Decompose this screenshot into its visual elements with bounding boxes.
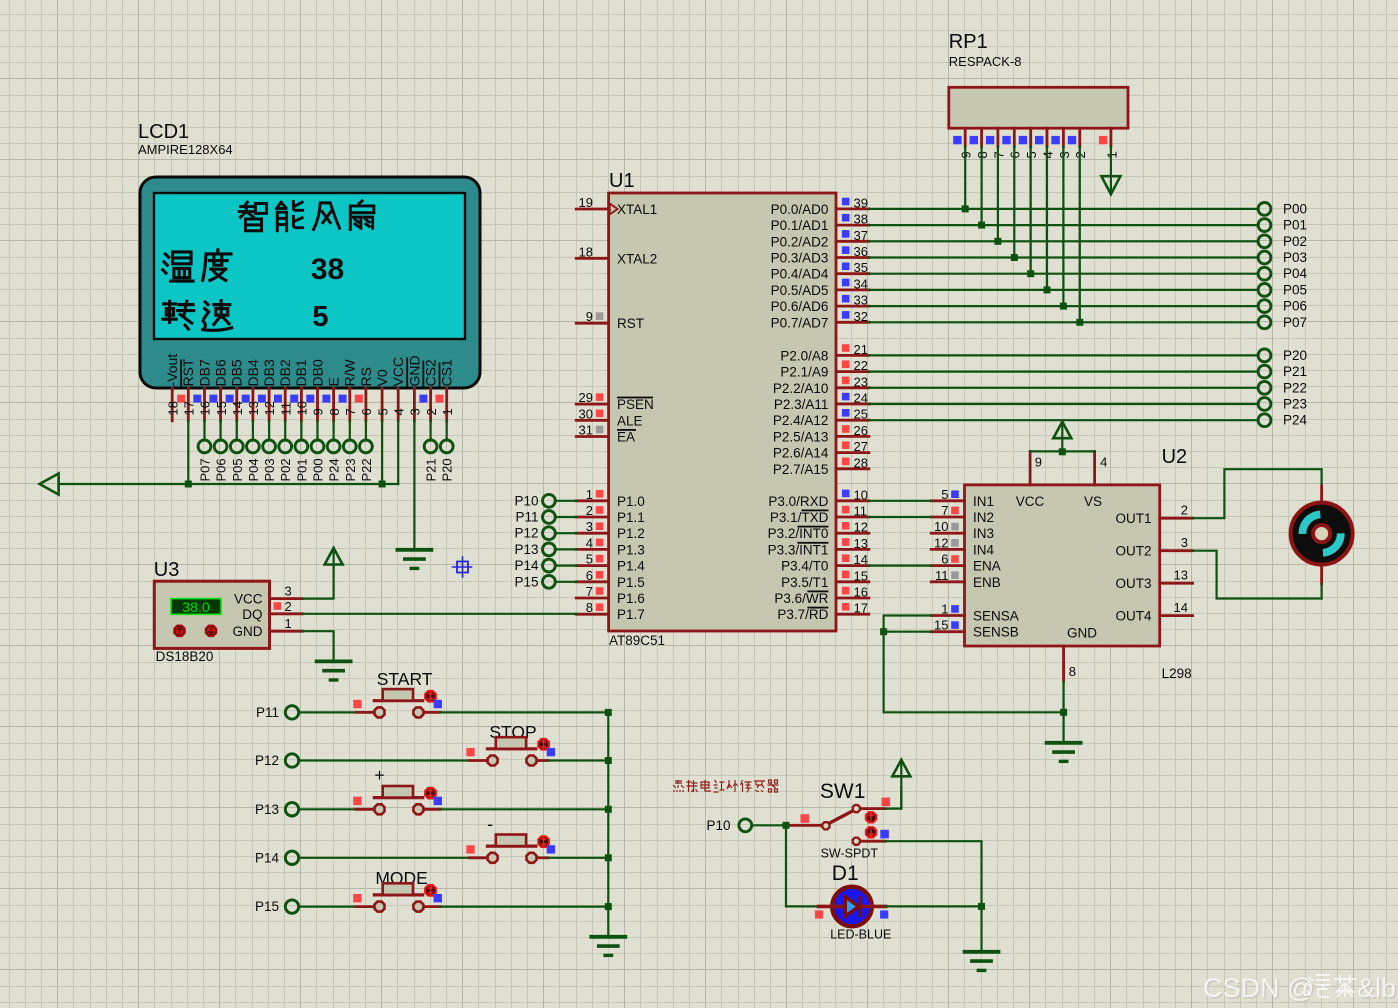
- mcu U1 AT89C51 body: [609, 193, 836, 631]
- LCD1 pin 9 (DB0): [306, 359, 325, 421]
- U1 pin 21 (P2.0/A8): [780, 342, 869, 364]
- svg-text:P24: P24: [327, 458, 342, 481]
- svg-text:P1.1: P1.1: [617, 510, 645, 525]
- RP1 pin 2: [1068, 128, 1088, 158]
- svg-text:P2.2/A10: P2.2/A10: [773, 381, 829, 396]
- wire U2 GND down: [1062, 681, 1064, 743]
- U2 pin 6 (ENA): [931, 552, 1001, 574]
- LCD1 pin 12 (DB3): [258, 359, 277, 421]
- LCD1 pin 15 (DB6): [209, 359, 228, 421]
- U1 pin 8 (P1.7): [576, 600, 645, 622]
- svg-text:P2.1/A9: P2.1/A9: [780, 365, 828, 380]
- motor pin 1 stub: [1320, 486, 1323, 502]
- svg-text:P22: P22: [359, 458, 374, 481]
- terminal P04: [1258, 266, 1307, 281]
- U1 pin 34 (P0.5/AD5): [771, 276, 869, 298]
- push button - label: [487, 814, 493, 834]
- wire P0.0 to terminal P00: [869, 208, 1258, 210]
- svg-text:27: 27: [854, 439, 868, 454]
- svg-text:35: 35: [854, 260, 868, 275]
- wire U3 DQ to U1 P1.7: [302, 613, 576, 615]
- svg-text:7: 7: [941, 503, 948, 518]
- wire STOP right: [537, 759, 608, 762]
- svg-text:P14: P14: [514, 558, 539, 573]
- U1 pin 14 (P3.4/T0): [781, 552, 869, 574]
- svg-text:P0.5/AD5: P0.5/AD5: [771, 283, 829, 298]
- svg-text:P1.6: P1.6: [617, 591, 645, 606]
- svg-text:P11: P11: [515, 510, 538, 525]
- svg-text:18: 18: [165, 401, 180, 415]
- U2 pin 15 (SENSB): [931, 618, 1019, 640]
- svg-text:P20: P20: [440, 458, 455, 481]
- wire P10 to SW1: [752, 824, 786, 826]
- svg-text:26: 26: [854, 423, 868, 438]
- terminal P14: [255, 850, 299, 865]
- wire - right: [537, 856, 608, 859]
- svg-text:P12: P12: [255, 753, 279, 768]
- svg-text:P3.1/TXD: P3.1/TXD: [770, 510, 829, 525]
- terminal P11 at U1: [515, 510, 555, 525]
- svg-text:15: 15: [214, 401, 229, 415]
- svg-text:-Vout: -Vout: [164, 354, 180, 387]
- U1 pin 18 (XTAL2): [576, 244, 657, 266]
- svg-text:P07: P07: [1283, 315, 1307, 330]
- wire SENS to ground rail: [884, 632, 1064, 713]
- svg-text:START: START: [377, 669, 433, 689]
- U1 XTAL1 clock arrow: [610, 204, 618, 215]
- svg-text:GND: GND: [1067, 626, 1097, 641]
- U2 pin 2 (OUT1): [1115, 503, 1192, 527]
- LCD1 pin 11 (DB2): [274, 359, 293, 421]
- svg-text:14: 14: [1174, 600, 1188, 615]
- svg-text:EA: EA: [617, 430, 635, 445]
- svg-text:GND: GND: [233, 624, 263, 639]
- svg-text:AT89C51: AT89C51: [609, 633, 665, 648]
- svg-text:OUT2: OUT2: [1115, 544, 1151, 559]
- wire LCD pin 10 to terminal P01: [300, 421, 302, 440]
- svg-text:1: 1: [586, 487, 593, 502]
- svg-text:P15: P15: [514, 574, 538, 589]
- svg-text:DB0: DB0: [309, 359, 325, 386]
- svg-text:14: 14: [230, 401, 245, 415]
- svg-text:P0.4/AD4: P0.4/AD4: [771, 267, 829, 282]
- svg-text:P04: P04: [246, 458, 261, 481]
- svg-text:DB5: DB5: [229, 359, 245, 386]
- terminal P10 at U1: [514, 493, 555, 508]
- push button STOP label: [489, 722, 536, 742]
- svg-text:12: 12: [934, 535, 948, 550]
- svg-text:6: 6: [359, 408, 374, 415]
- svg-text:16: 16: [854, 585, 868, 600]
- LCD1 pin 16 (DB7): [193, 359, 212, 421]
- wire + left: [299, 808, 374, 810]
- wire RP1 pin 3 to P0.6 net: [1062, 146, 1064, 306]
- svg-text:P22: P22: [1283, 380, 1307, 395]
- svg-text:8: 8: [1069, 664, 1076, 679]
- driver U2 L298 body: [965, 485, 1160, 646]
- LCD1 pin 1 (CS1): [436, 359, 455, 421]
- LCD screen value 38: [311, 253, 344, 286]
- svg-text:6: 6: [941, 552, 948, 567]
- svg-text:OUT3: OUT3: [1115, 576, 1151, 591]
- LCD1 pin 7 (R/W): [339, 359, 358, 421]
- U1 pin 22 (P2.1/A9): [780, 358, 869, 380]
- LCD1 body: [140, 177, 480, 388]
- svg-text:OUT4: OUT4: [1115, 609, 1151, 624]
- svg-text:12: 12: [854, 520, 868, 535]
- terminal P13 at U1: [514, 542, 555, 557]
- wire D1 cathode: [886, 905, 982, 907]
- wire P2.0 to terminal P20: [869, 354, 1258, 356]
- svg-text:RESPACK-8: RESPACK-8: [949, 54, 1022, 69]
- led D1 reference label: [832, 862, 859, 885]
- svg-text:2: 2: [424, 408, 439, 415]
- wire LCD pin 9 to terminal P00: [316, 421, 318, 440]
- U1 pin 24 (P2.3/A11): [774, 391, 869, 413]
- RP1 value label RESPACK-8: [949, 54, 1022, 69]
- svg-text:15: 15: [854, 568, 868, 583]
- svg-text:P23: P23: [343, 458, 358, 481]
- svg-text:L298: L298: [1162, 666, 1192, 681]
- svg-text:P02: P02: [1283, 234, 1307, 249]
- U1 pin 37 (P0.2/AD2): [771, 228, 869, 250]
- U1 pin 17 (P3.7/RD): [777, 601, 869, 623]
- svg-text:AMPIRE128X64: AMPIRE128X64: [138, 142, 233, 157]
- resistor pack RP1 reference label: [949, 31, 988, 53]
- svg-text:P24: P24: [1283, 413, 1308, 428]
- wire terminal P10 to U1: [555, 500, 576, 502]
- svg-text:SW1: SW1: [820, 780, 866, 803]
- svg-text:P00: P00: [1283, 201, 1307, 216]
- svg-text:P13: P13: [514, 542, 538, 557]
- svg-text:P11: P11: [256, 705, 279, 720]
- junction RP1 pin 6 / P0.3: [1011, 254, 1018, 261]
- ground below U2: [1047, 743, 1081, 762]
- svg-text:31: 31: [579, 423, 593, 438]
- svg-text:P2.3/A11: P2.3/A11: [774, 397, 829, 412]
- svg-text:SENSA: SENSA: [973, 609, 1019, 624]
- svg-text:39: 39: [854, 195, 868, 210]
- U1 pin 35 (P0.4/AD4): [771, 260, 869, 282]
- power terminal above U3: [325, 548, 343, 566]
- svg-text:P2.0/A8: P2.0/A8: [780, 348, 828, 363]
- ground below LCD: [397, 550, 431, 569]
- junction RP1 pin 4 / P0.5: [1044, 286, 1051, 293]
- junction D1 net: [978, 903, 985, 910]
- svg-text:D1: D1: [832, 862, 859, 885]
- svg-text:SENSB: SENSB: [973, 625, 1019, 640]
- svg-text:P05: P05: [230, 458, 245, 481]
- U1 pin 3 (P1.2): [576, 519, 645, 541]
- wire horizontal bus to left arrow terminal: [59, 483, 399, 485]
- svg-text:10: 10: [854, 487, 868, 502]
- wire - left: [299, 857, 487, 859]
- svg-text:P1.5: P1.5: [617, 575, 645, 590]
- svg-text:19: 19: [579, 195, 593, 210]
- svg-text:5: 5: [586, 552, 593, 567]
- wire LCD V0 pin 5 down: [381, 421, 383, 484]
- U2 value label L298: [1162, 666, 1192, 681]
- svg-text:P3.4/T0: P3.4/T0: [781, 559, 828, 574]
- U1 value label AT89C51: [609, 633, 665, 648]
- RP1 pin 8: [970, 128, 990, 158]
- svg-text:P10: P10: [514, 493, 538, 508]
- power terminal below RP1 pin 1: [1101, 146, 1120, 194]
- svg-text:VCC: VCC: [234, 592, 263, 607]
- svg-text:XTAL1: XTAL1: [617, 202, 657, 217]
- led D1 (LED-BLUE): [815, 887, 888, 927]
- terminal P24: [1258, 413, 1307, 428]
- U1 pin 5 (P1.4): [576, 552, 645, 574]
- terminal P21: [1258, 364, 1307, 379]
- wire U3 VCC to power: [302, 566, 333, 599]
- svg-text:P0.1/AD1: P0.1/AD1: [771, 218, 829, 233]
- svg-text:33: 33: [854, 293, 868, 308]
- terminal P01: [294, 440, 309, 482]
- svg-text:25: 25: [854, 407, 868, 422]
- svg-text:P3.3/INT1: P3.3/INT1: [768, 542, 829, 557]
- wire LCD pin 13 to terminal P04: [252, 421, 254, 440]
- ground below D1: [965, 952, 999, 971]
- svg-text:P10: P10: [706, 818, 730, 833]
- U3 temperature display 38.0: [171, 599, 221, 616]
- terminal P07: [198, 440, 213, 482]
- terminal P12: [255, 753, 299, 768]
- RP1 pin 9: [953, 128, 973, 158]
- svg-text:9: 9: [1035, 455, 1042, 470]
- svg-text:17: 17: [182, 401, 197, 415]
- wire P0.4 to terminal P04: [869, 273, 1258, 275]
- svg-text:SW-SPDT: SW-SPDT: [821, 847, 879, 861]
- terminal P00: [1258, 201, 1307, 216]
- svg-text:DB1: DB1: [293, 359, 309, 386]
- svg-text:V0: V0: [374, 369, 390, 386]
- svg-text:P1.7: P1.7: [617, 607, 645, 622]
- origin marker: [453, 557, 472, 577]
- wire P0.7 to terminal P07: [869, 321, 1258, 323]
- wire STOP left: [299, 759, 487, 761]
- svg-text:IN1: IN1: [973, 494, 994, 509]
- svg-text:8: 8: [327, 408, 342, 415]
- svg-text:13: 13: [854, 536, 868, 551]
- svg-text:DB2: DB2: [277, 359, 293, 386]
- U1 pin 11 (P3.1/TXD): [770, 504, 869, 526]
- svg-text:5: 5: [375, 408, 390, 415]
- wire RP1 pin 7 to P0.2 net: [997, 146, 999, 241]
- terminal P13: [255, 802, 299, 817]
- svg-text:17: 17: [854, 601, 868, 616]
- junction button rail +: [605, 806, 612, 813]
- terminal P04: [246, 440, 261, 482]
- svg-text:11: 11: [935, 568, 949, 583]
- svg-text:11: 11: [854, 504, 868, 519]
- svg-text:P3.7/RD: P3.7/RD: [777, 607, 828, 622]
- svg-text:P0.3/AD3: P0.3/AD3: [771, 251, 829, 266]
- junction button rail START: [605, 709, 612, 716]
- LCD1 screen: [154, 193, 465, 339]
- svg-text:4: 4: [391, 408, 406, 415]
- wire P3.1/TXD to IN2: [869, 516, 931, 518]
- RP1 pin 5: [1019, 128, 1039, 158]
- U2 pin 5 (IN1): [931, 487, 994, 509]
- U3 down adjust button: [205, 625, 216, 636]
- svg-text:13: 13: [1174, 568, 1188, 583]
- junction SENS: [880, 628, 887, 635]
- U1 pin 25 (P2.4/A12): [773, 407, 869, 429]
- svg-text:DB7: DB7: [196, 359, 212, 386]
- wire terminal P11 to U1: [555, 516, 576, 518]
- svg-text:P06: P06: [1283, 299, 1307, 314]
- wire RP1 pin 8 to P0.1 net: [980, 146, 982, 225]
- svg-text:7: 7: [586, 584, 593, 599]
- svg-text:+: +: [374, 765, 384, 785]
- U2 pin 9 (VCC): [1016, 451, 1045, 509]
- svg-text:9: 9: [586, 309, 593, 324]
- terminal P02: [1258, 234, 1307, 249]
- wire P0.5 to terminal P05: [869, 289, 1258, 291]
- ground below U3: [317, 661, 351, 680]
- svg-text:VCC: VCC: [1016, 494, 1045, 509]
- svg-text:1: 1: [941, 602, 948, 617]
- svg-text:36: 36: [854, 244, 868, 259]
- switch SW1 value label SW-SPDT: [821, 847, 879, 861]
- svg-text:OUT1: OUT1: [1115, 511, 1151, 526]
- U1 pin 36 (P0.3/AD3): [771, 244, 869, 266]
- svg-text:P03: P03: [262, 458, 277, 481]
- switch SW1 reference label: [820, 780, 866, 803]
- svg-text:RST: RST: [180, 358, 196, 386]
- svg-text:P01: P01: [294, 458, 309, 481]
- LCD screen title text 智能风扇: [239, 201, 374, 231]
- svg-text:32: 32: [854, 309, 868, 324]
- power terminal above U2: [1053, 422, 1071, 452]
- U1 pin 30 (ALE): [576, 406, 642, 428]
- svg-text:LCD1: LCD1: [138, 121, 189, 143]
- svg-text:CS2: CS2: [422, 359, 438, 386]
- svg-text:14: 14: [854, 552, 868, 567]
- svg-text:P1.3: P1.3: [617, 542, 645, 557]
- wire terminal P15 to U1: [555, 581, 576, 583]
- terminal P23: [343, 440, 358, 482]
- U1 pin 28 (P2.7/A15): [773, 455, 869, 477]
- svg-text:P15: P15: [255, 899, 279, 914]
- svg-text:P3.0/RXD: P3.0/RXD: [768, 494, 828, 509]
- svg-text:P3.2/INT0: P3.2/INT0: [768, 526, 829, 541]
- LCD1 reference label: [138, 121, 189, 143]
- LCD1 pin 18 (-Vout): [164, 354, 180, 421]
- wire P10 junction down to LED: [785, 825, 787, 906]
- U3 pin 3 (VCC): [234, 584, 302, 607]
- svg-text:P0.2/AD2: P0.2/AD2: [771, 234, 829, 249]
- junction at RST column: [185, 481, 192, 488]
- terminal P00: [311, 440, 326, 482]
- wire OUT1 to motor: [1193, 469, 1322, 518]
- svg-text:DB6: DB6: [213, 359, 229, 386]
- driver U2 reference label: [1162, 446, 1188, 468]
- svg-text:10: 10: [934, 519, 948, 534]
- junction button rail -: [605, 854, 612, 861]
- wire P3.4/T0 to ENA: [869, 564, 931, 566]
- U1 pin 4 (P1.3): [576, 535, 645, 557]
- U1 pin 12 (P3.2/INT0): [768, 520, 869, 542]
- wire terminal P12 to U1: [555, 532, 576, 534]
- wire terminal P13 to U1: [555, 548, 576, 550]
- wire LCD pin 14 to terminal P05: [236, 421, 238, 440]
- U1 pin 29 (PSEN): [576, 390, 654, 412]
- wire RP1 pin 5 to P0.4 net: [1030, 146, 1032, 273]
- svg-text:DS18B20: DS18B20: [156, 649, 214, 664]
- wire LCD pin 12 to terminal P03: [268, 421, 270, 440]
- wire terminal P14 to U1: [555, 564, 576, 566]
- terminal P20: [440, 440, 455, 482]
- svg-text:CSDN @: CSDN @: [1203, 973, 1314, 1003]
- svg-text:22: 22: [854, 358, 868, 373]
- wire MODE right: [424, 905, 608, 908]
- wire P0.3 to terminal P03: [869, 256, 1258, 258]
- junction P10 net: [783, 822, 790, 829]
- svg-text:1: 1: [285, 616, 292, 631]
- wire LCD pin 6 to terminal P22: [365, 421, 367, 440]
- LCD1 pin 13 (DB4): [242, 359, 261, 421]
- svg-text:P04: P04: [1283, 266, 1308, 281]
- wire U3 GND down: [302, 631, 333, 661]
- LCD1 pin 10 (DB1): [290, 359, 309, 421]
- push button START: [353, 689, 442, 717]
- LCD1 pin 2 (CS2): [419, 359, 438, 421]
- svg-text:P21: P21: [424, 458, 439, 481]
- svg-text:E: E: [326, 377, 342, 386]
- U2 pin 3 (OUT2): [1115, 535, 1192, 559]
- wire P3.0/RXD to IN1: [869, 500, 931, 502]
- wire LCD GND pin 3 down: [413, 421, 415, 550]
- terminal P15 at U1: [514, 574, 555, 589]
- mcu U1 reference label: [609, 170, 635, 192]
- terminal P22: [359, 440, 374, 482]
- svg-text:3: 3: [285, 584, 292, 599]
- LCD screen text 转速: [163, 301, 232, 331]
- svg-text:RST: RST: [617, 316, 644, 331]
- push button +: [353, 786, 442, 814]
- wire LCD RST pin 17 down: [187, 421, 189, 484]
- svg-text:ENB: ENB: [973, 575, 1001, 590]
- svg-text:P1.2: P1.2: [617, 526, 645, 541]
- svg-text:3: 3: [1181, 535, 1188, 550]
- svg-text:8: 8: [586, 600, 593, 615]
- svg-text:21: 21: [854, 342, 868, 357]
- wire LCD pin 11 to terminal P02: [284, 421, 286, 440]
- svg-text:5: 5: [941, 487, 948, 502]
- junction U2 power: [1059, 448, 1066, 455]
- U1 pin 6 (P1.5): [576, 568, 645, 590]
- watermark CSDN: [1203, 973, 1398, 1005]
- LCD1 pin 14 (DB5): [226, 359, 245, 421]
- svg-text:P00: P00: [311, 458, 326, 481]
- wire LCD VCC pin 4 down: [397, 421, 399, 484]
- terminal P03: [1258, 250, 1307, 265]
- push button MODE label: [375, 868, 428, 888]
- wire START left: [299, 711, 374, 713]
- wire START right: [424, 711, 608, 714]
- wire LCD pin 7 to terminal P23: [349, 421, 351, 440]
- wire LCD pin 2 to terminal P21: [430, 421, 432, 440]
- terminal P11: [256, 705, 299, 720]
- svg-text:P13: P13: [255, 802, 279, 817]
- wire LCD pin 1 to terminal P20: [446, 421, 448, 440]
- terminal P10 at SW1: [706, 818, 751, 833]
- U1 pin 26 (P2.5/A13): [773, 423, 869, 445]
- U1 pin 38 (P0.1/AD1): [771, 212, 869, 234]
- svg-text:IN2: IN2: [973, 510, 994, 525]
